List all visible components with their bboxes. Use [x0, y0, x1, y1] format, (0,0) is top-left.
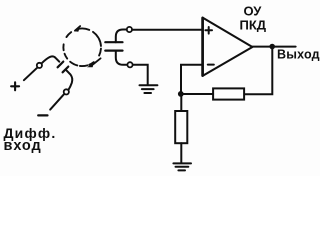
resistor R1 (feedback) — [213, 88, 244, 99]
wire from C2 bottom plate down to circle D — [116, 51, 127, 65]
capacitor C1 movable plate (dynamic capacitor, plate 1) — [58, 62, 64, 68]
modulator M1 top arrowhead (counterclockwise) — [74, 26, 80, 32]
junction N2 dot — [178, 91, 184, 97]
modulator M1 bottom arrowhead (counterclockwise) — [87, 58, 101, 67]
node D (terminal circle) — [127, 62, 132, 67]
wire from A to dynamic capacitor plate — [42, 56, 59, 63]
svg-text:ПКД: ПКД — [240, 17, 267, 32]
wire from R1 to junction N2 — [181, 93, 213, 95]
op-amp U1 minus input label — [208, 64, 214, 66]
ground G1 — [140, 85, 158, 93]
wire from output node down and left to resistor R1 — [244, 47, 272, 95]
label + (diff input plus) — [11, 82, 19, 90]
output wire from U1 to Vyhod — [252, 46, 295, 48]
op-amp U1 plus input label — [205, 27, 212, 34]
wire from junction down to R2 — [180, 94, 182, 111]
wire from junction up to inverting input — [181, 65, 202, 94]
ground G2 — [173, 163, 191, 170]
wire from R2 to ground G2 — [180, 143, 182, 163]
svg-text:вход: вход — [4, 138, 42, 154]
op-amp U1 triangle — [203, 18, 253, 76]
wire from C2 top plate up to circle C — [116, 30, 126, 43]
node C (terminal circle) — [127, 27, 132, 32]
resistor R2 (to ground) — [175, 111, 187, 143]
svg-text:Выход: Выход — [277, 47, 320, 61]
modulator M1 dashed circle (rotating dynamic capacitor drive) — [63, 28, 101, 66]
capacitor C1 plate 2 — [63, 67, 69, 73]
label - (diff input minus) — [38, 114, 47, 116]
wire from B to minus terminal — [50, 94, 64, 109]
wire from C to op-amp noninverting input — [132, 29, 202, 31]
svg-text:ОУ: ОУ — [244, 3, 263, 18]
capacitor C2 bottom plate — [105, 49, 122, 51]
output node dot — [269, 44, 275, 50]
wire from plate 2 to circle B — [67, 70, 73, 89]
node B (input terminal circle) — [64, 89, 69, 94]
wire from D to ground G1 — [133, 65, 148, 85]
node A (input terminal circle) — [37, 63, 42, 68]
capacitor C2 top plate — [105, 41, 122, 43]
wire from + terminal to circle A — [24, 68, 37, 80]
